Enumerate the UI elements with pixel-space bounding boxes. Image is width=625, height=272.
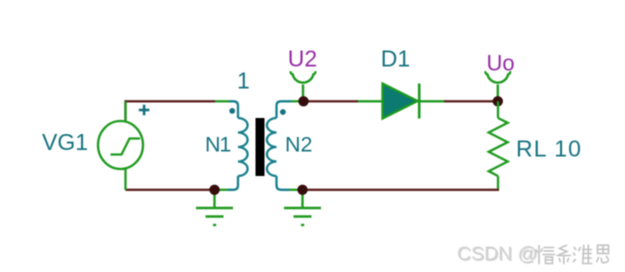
svg-text:U2: U2 — [288, 46, 317, 72]
transformer secondary winding N2 — [267, 118, 277, 176]
watermark CSDN — [457, 243, 538, 266]
watermark chinese characters — [536, 245, 609, 263]
svg-text:RL 10: RL 10 — [516, 136, 582, 162]
wire: diode to node Uo (dark red) — [444, 100, 498, 102]
resistor RL — [489, 118, 508, 176]
wire: bottom right segment (ground node to RL) — [303, 189, 500, 191]
diode D1 cathode lead — [419, 100, 444, 102]
svg-text:VG1: VG1 — [42, 129, 88, 155]
node: primary ground junction dot — [209, 185, 219, 195]
svg-text:Uo: Uo — [487, 51, 515, 76]
wire: node U2 to diode (dark red) — [304, 100, 359, 102]
resistor RL top lead — [497, 101, 499, 118]
node: Uo junction dot — [493, 96, 503, 106]
voltage generator VG1 — [98, 121, 143, 169]
淮 — [573, 245, 592, 263]
transformer primary lead (top corner) — [229, 101, 238, 118]
svg-text:D1: D1 — [381, 46, 410, 72]
transformer core — [256, 118, 265, 176]
transformer secondary lead top — [277, 101, 304, 118]
primary polarity dot — [229, 108, 235, 114]
node: secondary ground junction dot — [297, 185, 307, 195]
voltage probe Uo — [485, 71, 510, 101]
polarity + sign — [139, 105, 150, 116]
transformer primary lead (bottom corner) — [228, 176, 238, 190]
ground (primary side) — [196, 190, 233, 225]
ground (secondary side) — [284, 190, 321, 225]
diode D1 anode lead — [358, 100, 383, 102]
resistor RL bottom lead — [497, 176, 499, 189]
svg-text:CSDN @: CSDN @ — [457, 243, 537, 265]
svg-text:N1: N1 — [205, 133, 230, 157]
transformer secondary lead bottom — [277, 176, 303, 190]
voltage probe U2 — [291, 71, 316, 101]
diode D1 — [383, 84, 420, 119]
系 — [557, 245, 571, 263]
svg-text:N2: N2 — [285, 133, 312, 157]
wire: bottom left segment (VG1 to primary ground node) — [126, 169, 229, 190]
node: U2 junction dot — [298, 96, 308, 106]
secondary polarity dot — [280, 109, 286, 115]
wire: top left segment (VG1 to primary) — [126, 101, 230, 121]
transformer primary winding N1 — [238, 118, 248, 176]
思 — [597, 245, 609, 263]
svg-text:1: 1 — [237, 68, 250, 94]
情 — [536, 246, 555, 264]
